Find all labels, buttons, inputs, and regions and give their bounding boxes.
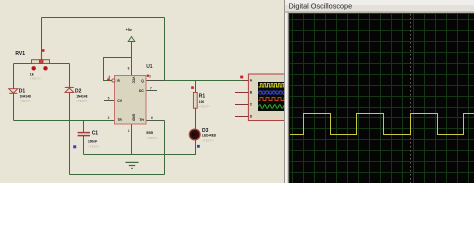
wire LED D3 bottom to ground rail [195,140,197,155]
svg-text:Digital Oscilloscope: Digital Oscilloscope [289,2,353,11]
wire R1 bottom to LED D3 [195,108,197,130]
oscilloscope grid [290,14,474,183]
pin number 4 [108,75,110,79]
wire RV1 wiper vertical [41,18,43,57]
wire trigger node horizontal (D1,D2,C1 to TR pin) [14,120,116,122]
instrument mini trace yellow [259,84,286,87]
svg-text:+5v: +5v [126,28,133,32]
wire lower loop horizontal [70,174,165,176]
pin number 5 [108,96,110,100]
svg-text:1N4148: 1N4148 [20,94,31,98]
oscilloscope screen [289,13,474,183]
svg-text:TR: TR [117,118,122,122]
svg-text:5: 5 [108,96,110,100]
svg-text:R1: R1 [199,94,206,100]
svg-text:<TEXT>: <TEXT> [20,99,32,103]
instrument channel B pin [235,91,253,95]
pin number 8 [128,67,130,71]
instrument mini trace green [259,105,287,109]
oscilloscope square wave trace [290,114,474,135]
U1 pin name TH [139,118,144,122]
svg-text:GND: GND [132,114,136,122]
oscilloscope instrument box [248,74,290,121]
wire ground rail [84,154,197,156]
U1 pin name R [117,79,120,83]
wire D1 branch vertical [13,64,15,121]
svg-text:6: 6 [151,116,153,120]
wire Q output to scope channel A [146,80,248,82]
wire D2 branch vertical [69,64,71,175]
wire RV1 right terminal [50,63,70,65]
svg-text:1N4148: 1N4148 [76,94,87,98]
U1 pin name DC [139,89,144,93]
pin number 3 [149,74,151,78]
U1 pin name VCC vertical [132,77,136,84]
oscilloscope window title bar [284,0,474,13]
diode D2 [65,87,88,102]
svg-text:VCC: VCC [132,77,136,84]
diode D1 [9,89,32,103]
svg-text:U1: U1 [146,64,153,70]
wire C1 top stub [83,121,85,133]
ground symbol [126,162,139,168]
wire TH column down to lower loop [164,121,166,175]
svg-text:7: 7 [150,86,152,90]
wire right column down to Q output node [164,18,166,81]
oscilloscope window frame [284,0,474,183]
svg-text:<TEXT>: <TEXT> [76,99,88,103]
svg-text:CV: CV [117,99,122,103]
wire RV1 left terminal [14,63,32,65]
svg-text:<TEXT>: <TEXT> [29,76,41,80]
LED D3 [189,128,217,148]
op-amp-timer U1 555 body [112,64,158,140]
instrument channel D pin [235,115,253,119]
U1 pin name TR [117,118,122,122]
svg-text:TH: TH [139,118,144,122]
schematic background [0,0,290,183]
instrument channel C pin [235,103,253,107]
wire reset pin 4 to +5V [104,58,132,81]
svg-text:<TEXT>: <TEXT> [146,136,158,140]
svg-text:555: 555 [146,130,153,135]
pin number 2 [108,116,110,120]
power terminal +5V [126,28,135,42]
svg-text:100nF: 100nF [88,140,97,144]
instrument mini trace red [259,98,285,101]
wire TH pin to column [146,120,165,122]
U1 pin name CV [117,99,122,103]
svg-text:RV1: RV1 [15,51,25,57]
svg-text:<TEXT>: <TEXT> [88,144,100,148]
U1 pin name Q [141,79,144,83]
pin DC stub (pin 7) [146,90,157,92]
node red indicator at reset pin [107,78,110,81]
instrument mini trace blue [259,91,286,94]
U1 pin name GND vertical [132,114,136,122]
svg-text:C1: C1 [92,131,99,137]
svg-text:<TEXT>: <TEXT> [199,105,211,109]
wire +5V to VCC pin 8 [131,42,133,75]
pin CV stub (pin 5) [104,100,116,102]
wire C1 bottom stub [83,136,85,155]
svg-text:1: 1 [128,129,130,133]
svg-text:Q: Q [141,79,144,83]
node red indicator at Q pin [147,75,149,77]
pin number 6 [151,116,153,120]
resistor R1 [191,86,210,108]
svg-text:<TEXT>: <TEXT> [202,139,214,143]
svg-text:3: 3 [149,74,151,78]
pin number 7 [150,86,152,90]
svg-text:LED-RED: LED-RED [202,134,217,138]
capacitor C1 [73,131,100,149]
svg-text:8: 8 [128,67,130,71]
wire R1 top stub [195,81,197,93]
oscilloscope cursor dashed line [410,14,412,183]
wire GND pin 1 to rail [131,124,133,155]
svg-text:DC: DC [139,89,144,93]
pin Q output stub (pin 3) [146,80,164,82]
svg-text:2: 2 [108,116,110,120]
svg-text:100: 100 [199,100,205,104]
instrument channel A pin [240,76,253,83]
pin number 1 [128,129,130,133]
potentiometer RV1 [15,49,49,80]
wire top rail from RV1 wiper to TH/Q column [42,17,165,19]
